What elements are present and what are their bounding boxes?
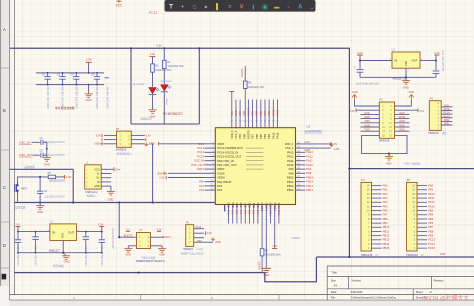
wire — [56, 176, 65, 178]
wire top pin — [276, 100, 278, 128]
wire right pin — [296, 164, 306, 166]
wire — [372, 201, 382, 203]
ground reset — [36, 206, 44, 210]
svg-text:MISO: MISO — [443, 115, 449, 118]
svg-text:10K(1002) ±5%: 10K(1002) ±5% — [49, 180, 65, 182]
ground P7 left — [124, 249, 132, 253]
svg-text:PB13: PB13 — [383, 238, 390, 242]
wire — [355, 100, 380, 106]
sheet bottom outer edge — [10, 299, 474, 301]
svg-text:PA10: PA10 — [287, 163, 294, 167]
svg-text:PA1: PA1 — [217, 184, 222, 188]
wire left pin — [205, 177, 216, 179]
capacitor C12 — [99, 232, 105, 253]
svg-text:3.3V: 3.3V — [150, 52, 156, 56]
power 5V USB — [111, 168, 114, 170]
svg-text:HDR2X3: HDR2X3 — [116, 149, 126, 152]
header P2 — [429, 101, 441, 131]
wire right pin — [296, 181, 306, 183]
svg-text:USB转TTL串口(R232): USB转TTL串口(R232) — [180, 252, 204, 256]
svg-text:3.3V: 3.3V — [198, 142, 204, 146]
svg-text:PA2: PA2 — [199, 188, 204, 192]
wire top pin — [252, 100, 254, 128]
svg-text:VSS_3: VSS_3 — [234, 130, 238, 139]
svg-text:晶振电路: 晶振电路 — [24, 165, 35, 169]
svg-text:PA5: PA5 — [236, 209, 239, 214]
svg-text:3.3V: 3.3V — [272, 245, 277, 248]
svg-text:PB9: PB9 — [238, 133, 242, 138]
svg-text:HDR1X4: HDR1X4 — [183, 248, 193, 251]
svg-text:3.3V: 3.3V — [350, 110, 355, 113]
svg-text:Number: Number — [352, 279, 361, 283]
svg-text:10K(1002) ±5%: 10K(1002) ±5% — [248, 87, 264, 89]
svg-text:GND: GND — [403, 85, 409, 89]
wire — [441, 124, 452, 126]
wire bottom return — [14, 257, 316, 282]
svg-text:PD1-OSC_OUT: PD1-OSC_OUT — [217, 163, 237, 167]
svg-text:BOOT1: BOOT1 — [163, 236, 172, 239]
svg-text:PB11: PB11 — [278, 209, 281, 216]
svg-text:PB6: PB6 — [428, 221, 434, 225]
LED D1 — [161, 85, 172, 92]
pin decoration line — [246, 164, 264, 166]
svg-text:of: of — [429, 290, 431, 294]
svg-text:T: T — [169, 4, 173, 11]
svg-text:GND: GND — [444, 123, 450, 126]
svg-text:5V: 5V — [16, 222, 19, 226]
svg-text:NSS: NSS — [444, 119, 449, 122]
svg-text:PB13: PB13 — [306, 184, 313, 188]
svg-text:GND: GND — [263, 273, 269, 277]
svg-text:PB7: PB7 — [251, 110, 255, 115]
wire — [361, 126, 380, 128]
wire LED box left — [130, 48, 132, 124]
svg-text:IN: IN — [395, 59, 398, 63]
svg-text:单片机控制指示灯: 单片机控制指示灯 — [163, 112, 184, 116]
wire LED box bottom — [131, 123, 199, 125]
svg-text:PB5: PB5 — [428, 217, 434, 221]
svg-text:PA7: PA7 — [244, 209, 247, 214]
ground P7 right — [158, 249, 166, 253]
wire — [32, 141, 40, 143]
svg-text:PB0: PB0 — [249, 209, 252, 214]
svg-text:U1: U1 — [50, 220, 54, 224]
svg-text:PB3: PB3 — [267, 133, 271, 138]
wire — [33, 154, 40, 156]
wire — [372, 210, 382, 212]
wire — [417, 230, 427, 232]
svg-text:10uF(106) 10% 25V: 10uF(106) 10% 25V — [35, 244, 38, 266]
wire — [417, 222, 427, 224]
svg-text:PB4: PB4 — [263, 133, 267, 138]
wire — [372, 214, 382, 216]
wire — [417, 214, 427, 216]
wire bottom right rail — [316, 256, 474, 258]
svg-text:Size: Size — [331, 279, 337, 283]
svg-text:PA15: PA15 — [271, 109, 275, 116]
wire — [441, 117, 452, 119]
wire top pin — [260, 100, 262, 128]
power bar P3 right row2 — [145, 138, 147, 141]
panel tab square — [2, 274, 7, 280]
svg-text:PB3: PB3 — [267, 110, 271, 115]
svg-text:PC13: PC13 — [149, 11, 157, 15]
svg-text:PA9: PA9 — [197, 240, 202, 243]
wire — [417, 243, 427, 245]
svg-text:Sheet: Sheet — [416, 290, 423, 294]
power bar P3 left row2 — [101, 138, 103, 141]
svg-text:▣: ▣ — [262, 5, 268, 11]
sheet bottom inner border — [10, 294, 328, 296]
svg-text:PB10: PB10 — [383, 225, 390, 229]
sheet left border line — [13, 0, 15, 295]
svg-text:D: D — [3, 243, 6, 248]
wire — [194, 228, 204, 230]
wire — [101, 181, 111, 183]
junction — [35, 231, 37, 233]
wire U3 gnd pin — [405, 68, 407, 77]
wire U1 in — [18, 231, 50, 233]
connector J1 USB micro — [85, 165, 102, 189]
junction — [62, 72, 64, 74]
wire — [168, 177, 205, 179]
svg-text:PA15: PA15 — [428, 204, 435, 208]
svg-text:D-: D- — [97, 173, 100, 176]
wire — [18, 177, 49, 183]
wire long vertical GND — [152, 144, 154, 203]
svg-text:电源选择接口: 电源选择接口 — [117, 152, 133, 156]
svg-text:TDO: TDO — [364, 128, 369, 132]
svg-text:VDD_1: VDD_1 — [285, 142, 294, 146]
wire bottom pin — [244, 205, 246, 224]
wire — [441, 113, 452, 115]
wire left pin — [205, 172, 216, 174]
svg-text:20pF(220) 5% 50V: 20pF(220) 5% 50V — [45, 141, 65, 144]
svg-text:PA5: PA5 — [383, 204, 388, 208]
wire — [150, 236, 163, 238]
wire left pin — [205, 151, 216, 153]
wire — [101, 177, 111, 179]
svg-text:PB1: PB1 — [253, 209, 256, 214]
svg-text:GND: GND — [386, 162, 392, 165]
ground P1 loop — [385, 156, 393, 160]
ground cap bank — [88, 85, 90, 94]
svg-text:GND: GND — [399, 119, 405, 123]
wire left pin — [205, 160, 216, 162]
svg-text:GND: GND — [94, 143, 100, 146]
junction — [359, 59, 361, 61]
svg-text:Title: Title — [331, 270, 337, 274]
svg-text:VCC: VCC — [116, 3, 123, 7]
LED D2 — [149, 88, 160, 95]
wire U3 out — [420, 60, 436, 62]
wire — [39, 193, 41, 202]
svg-text:PA2: PA2 — [383, 192, 388, 196]
svg-text:SCK: SCK — [364, 111, 370, 115]
svg-text:PA13: PA13 — [306, 150, 313, 154]
svg-text:PB9: PB9 — [238, 110, 242, 115]
pin decoration line — [246, 151, 264, 153]
wire cap bank top rail — [36, 72, 104, 74]
wire — [395, 100, 412, 106]
svg-text:PC13: PC13 — [167, 98, 169, 104]
svg-text:PB6: PB6 — [255, 133, 259, 138]
svg-text:GND: GND — [37, 210, 43, 214]
wire bottom pin — [236, 205, 238, 224]
svg-text:PB4: PB4 — [263, 110, 267, 115]
svg-text:100nF(104) 10% 50V: 100nF(104) 10% 50V — [76, 86, 79, 109]
wire — [194, 237, 204, 239]
svg-text:100nF(104) 10% 50V: 100nF(104) 10% 50V — [47, 86, 50, 109]
wire — [372, 197, 382, 199]
svg-text:PD0-OSC_IN: PD0-OSC_IN — [217, 159, 234, 163]
ground arrow right — [330, 143, 334, 146]
header P4 — [361, 182, 372, 251]
svg-text:PA4: PA4 — [232, 209, 235, 214]
svg-text:PB2: PB2 — [257, 209, 260, 214]
junction — [388, 153, 390, 155]
svg-text:P1: P1 — [380, 98, 384, 102]
wire right pin — [296, 168, 306, 170]
svg-text:GND: GND — [94, 185, 100, 188]
svg-text:GND: GND — [364, 115, 370, 119]
wire — [395, 113, 410, 115]
power 3.3V P1 row2 right — [417, 108, 419, 112]
svg-text:GND: GND — [334, 148, 340, 151]
wire — [204, 241, 213, 243]
svg-text:HDR2X8: HDR2X8 — [379, 140, 389, 143]
svg-text:PB11: PB11 — [383, 229, 390, 233]
svg-text:3.3V: 3.3V — [66, 175, 72, 179]
wire bottom pin — [228, 205, 230, 224]
junction — [152, 201, 154, 203]
wire — [101, 185, 111, 187]
wire right pin — [296, 185, 306, 187]
svg-text:PB15: PB15 — [287, 176, 294, 180]
wire — [372, 189, 382, 191]
svg-text:P5: P5 — [407, 178, 411, 182]
svg-text:3.3V: 3.3V — [207, 232, 212, 235]
svg-text:1uF(105) 10% 50V: 1uF(105) 10% 50V — [442, 50, 445, 71]
ground U3 — [402, 81, 410, 85]
wire — [417, 189, 427, 191]
svg-text:3.3V: 3.3V — [149, 143, 154, 146]
wire bottom pin GND — [265, 205, 267, 268]
wire — [359, 72, 361, 77]
svg-text:OSC_IN: OSC_IN — [194, 159, 204, 163]
resistor R4 — [243, 81, 247, 88]
svg-text:PA14: PA14 — [276, 132, 280, 139]
wire — [395, 109, 418, 111]
svg-text:OSC_OUT: OSC_OUT — [19, 153, 33, 157]
svg-text:BOOT0: BOOT0 — [241, 68, 244, 77]
junction — [72, 201, 74, 203]
wire — [63, 253, 66, 256]
svg-text:10uF(106) 10% 25V: 10uF(106) 10% 25V — [101, 244, 104, 266]
regulator U1 — [50, 224, 77, 241]
wire VSS right — [296, 147, 331, 149]
svg-text:PA6: PA6 — [240, 209, 243, 214]
svg-text:PA2: PA2 — [217, 188, 222, 192]
svg-text:JTAG 下载电路: JTAG 下载电路 — [404, 161, 421, 165]
junction — [163, 47, 165, 49]
wire right pin — [296, 151, 306, 153]
ground USB — [107, 191, 115, 195]
header P5 — [407, 182, 418, 251]
title block frame — [327, 266, 474, 300]
wire LED box right — [198, 48, 200, 124]
svg-text:PB6: PB6 — [255, 110, 259, 115]
svg-text:STM32: STM32 — [292, 237, 301, 240]
wire — [361, 118, 380, 120]
wire bottom pin — [253, 205, 255, 224]
wire top pin — [268, 100, 270, 128]
wire — [417, 205, 427, 207]
power 3.3V top pin — [229, 91, 234, 93]
wire top pin — [264, 100, 266, 128]
wire — [372, 185, 382, 187]
svg-text:单片机滤波电路: 单片机滤波电路 — [55, 106, 75, 110]
svg-text:PB15: PB15 — [383, 246, 390, 250]
svg-text:CSDN @柠檬大大: CSDN @柠檬大大 — [422, 294, 469, 302]
svg-text:PA0-WKUP: PA0-WKUP — [217, 180, 231, 184]
junction — [75, 72, 77, 74]
svg-text:3.3V: 3.3V — [86, 58, 92, 62]
wire — [150, 245, 162, 247]
svg-text:PA12: PA12 — [306, 154, 313, 158]
wire bottom pin 3.3V — [274, 205, 276, 249]
svg-text:PB8: PB8 — [428, 229, 434, 233]
wire bottom pin BOOT0 — [261, 205, 263, 249]
svg-text:MOSI: MOSI — [399, 115, 406, 119]
svg-text:D:\AltiumDesigner18.1.9\Shared: D:\AltiumDesigner18.1.9\Shared.SchDoc — [351, 297, 397, 300]
svg-text:BOOT0: BOOT0 — [246, 106, 250, 115]
svg-text:PC13: PC13 — [197, 146, 204, 150]
svg-text:PA3: PA3 — [383, 196, 388, 200]
svg-text:GND: GND — [405, 61, 408, 67]
svg-text:B: B — [3, 108, 6, 113]
ground OSC — [43, 158, 51, 162]
wire U1 gnd — [62, 241, 64, 253]
svg-text:PC14: PC14 — [197, 150, 204, 154]
wire — [131, 134, 145, 136]
svg-text:5.0V: 5.0V — [357, 51, 363, 55]
wire — [395, 122, 410, 124]
svg-text:PB5: PB5 — [259, 110, 263, 115]
svg-text:10K(1002) ±5%: 10K(1002) ±5% — [265, 255, 281, 257]
capacitor C5 — [41, 153, 43, 158]
svg-text:1uF(105) 10% 50V: 1uF(105) 10% 50V — [45, 196, 65, 199]
svg-text:stm32f103c8t6: stm32f103c8t6 — [305, 129, 323, 133]
svg-text:OUT: OUT — [68, 231, 74, 235]
wire right pin — [296, 156, 306, 158]
wire U3 gnd rail — [360, 76, 436, 78]
wire — [361, 113, 380, 115]
svg-text:100(1002) ±5%: 100(1002) ±5% — [168, 66, 184, 68]
svg-text:电源指示灯: 电源指示灯 — [140, 116, 153, 120]
capacitor C3 — [73, 73, 79, 85]
wire — [372, 243, 382, 245]
svg-text:GND: GND — [399, 128, 405, 132]
svg-text:SCK: SCK — [444, 104, 449, 107]
svg-text:PB10: PB10 — [270, 209, 273, 216]
bottom zone ticks — [140, 295, 142, 301]
wire — [372, 193, 382, 195]
svg-text:MOSI: MOSI — [443, 108, 450, 111]
svg-text:PC13-TAMPER-RTC: PC13-TAMPER-RTC — [217, 146, 243, 150]
svg-text:PB7: PB7 — [251, 133, 255, 138]
wire — [168, 172, 205, 174]
svg-text:PB9: PB9 — [428, 234, 434, 238]
wire — [435, 74, 437, 78]
power 3.3V reset — [64, 175, 66, 179]
wire — [395, 126, 410, 128]
junction — [39, 176, 41, 178]
wire — [417, 239, 427, 241]
wire — [104, 139, 117, 141]
wire — [356, 109, 379, 111]
svg-text:A: A — [3, 27, 6, 32]
wire — [417, 226, 427, 228]
svg-text:U3: U3 — [392, 48, 396, 52]
wire — [417, 218, 427, 220]
junction — [88, 72, 90, 74]
wire — [372, 235, 382, 237]
wire right pin — [296, 189, 306, 191]
wire — [194, 232, 204, 234]
left panel — [0, 0, 10, 286]
svg-text:PA11: PA11 — [306, 159, 313, 163]
svg-text:VDDA: VDDA — [217, 176, 225, 180]
svg-text:PB13: PB13 — [287, 184, 294, 188]
wire — [131, 139, 145, 141]
ground P6 — [211, 237, 214, 240]
svg-text:OUT: OUT — [412, 59, 418, 63]
svg-text:20pF(220) 5% 50V: 20pF(220) 5% 50V — [45, 154, 65, 157]
svg-text:PA12: PA12 — [428, 200, 435, 204]
wire — [194, 241, 204, 243]
junction — [348, 168, 350, 170]
wire bottom pin — [232, 205, 234, 224]
wire — [388, 154, 390, 156]
wire — [163, 92, 165, 124]
wire top pin — [247, 100, 249, 128]
wire — [361, 122, 380, 124]
svg-text:Date:: Date: — [331, 290, 337, 294]
svg-text:PA12: PA12 — [287, 155, 294, 159]
wire 3.3V rail — [10, 48, 350, 257]
wire — [372, 230, 382, 232]
svg-text:GND: GND — [44, 163, 50, 167]
wire — [104, 134, 117, 136]
header P3 — [117, 131, 132, 147]
svg-text:●: ● — [287, 5, 290, 11]
wire bottom pin — [270, 205, 272, 224]
svg-text:PA6: PA6 — [383, 209, 388, 213]
wire VDD right — [296, 143, 331, 145]
wire — [441, 106, 452, 108]
junction — [198, 47, 200, 49]
svg-text:C: C — [3, 185, 6, 190]
svg-text:PB1: PB1 — [383, 221, 389, 225]
svg-text:PB14: PB14 — [383, 242, 390, 246]
power 3.3V cap bank — [88, 62, 90, 73]
svg-text:PC14: PC14 — [443, 112, 450, 115]
power 3.3V bottom — [272, 248, 277, 250]
svg-text:GND: GND — [234, 110, 238, 116]
wire right pin — [296, 160, 306, 162]
zone divider ticks — [1, 67, 9, 69]
